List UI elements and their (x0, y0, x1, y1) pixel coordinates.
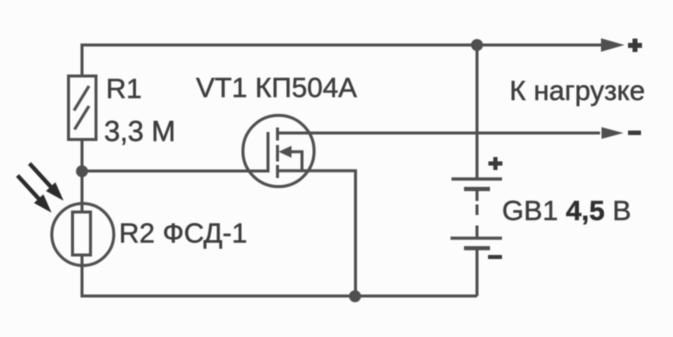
battery minus polarity mark (488, 255, 502, 259)
junction node A: R1, R2 and gate (76, 165, 88, 177)
svg-text:R1: R1 (106, 73, 142, 104)
wire VT1 drain to minus output (278, 132, 601, 135)
svg-text:GB1 4,5 В: GB1 4,5 В (502, 195, 631, 226)
wire battery plus up to top rail (476, 45, 479, 179)
svg-text:К нагрузке: К нагрузке (510, 75, 646, 106)
junction source to bottom rail (349, 290, 361, 302)
wire R1 bottom to R2 top (81, 140, 84, 213)
svg-text:R2 ФСД-1: R2 ФСД-1 (119, 218, 247, 249)
transistor VT1 (MOSFET) (243, 115, 314, 186)
wire battery minus down to bottom rail (476, 248, 479, 296)
photoresistor R2 (52, 204, 114, 266)
wire gate from node A to VT1 gate (82, 170, 268, 173)
battery GB1 (451, 179, 503, 248)
output arrow head minus (602, 127, 624, 139)
wire R2 bottom along bottom rail to battery minus (82, 255, 477, 296)
svg-text:3,3 М: 3,3 М (104, 116, 175, 148)
light arrow 1 (30, 164, 63, 200)
transistor VT1 substrate arrow head (279, 146, 292, 158)
battery plus polarity mark (488, 157, 502, 170)
plus sign output (628, 39, 642, 52)
wire top positive rail from R1 top to output arrow (82, 45, 603, 76)
minus sign output (628, 131, 641, 136)
svg-text:VT1 КП504А: VT1 КП504А (196, 72, 357, 103)
resistor R1 (69, 76, 97, 140)
junction top rail to battery (471, 39, 483, 51)
light arrow 2 (18, 176, 51, 212)
output arrow head plus (601, 38, 625, 51)
wire VT1 source down to bottom rail (278, 171, 356, 296)
